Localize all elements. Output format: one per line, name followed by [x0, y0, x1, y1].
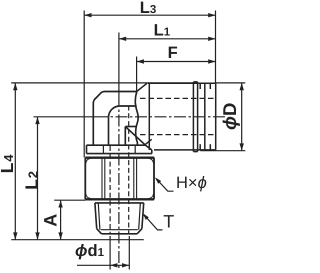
wire elbow outer contour with chamfered corner	[93, 92, 136, 146]
node phiD dimension line with arrows	[240, 83, 244, 151]
wire ring top cap	[193, 81, 197, 83]
node F dimension line with arrows	[137, 59, 216, 63]
node T leader with arrow	[143, 213, 163, 230]
wire hex face lines right pair	[134, 158, 137, 199]
wire cap bottom edge	[154, 149, 216, 151]
wire stud bottom left chamfer	[97, 229, 102, 234]
node A dimension line with arrows	[58, 200, 62, 240]
svg-text:F: F	[168, 44, 178, 62]
node L1 dimension line with arrows	[119, 37, 216, 41]
wire stud bottom edge	[102, 233, 138, 235]
wire elbow inner corner arc	[109, 106, 120, 117]
wire stud left taper edge	[95, 203, 97, 229]
node horizontal center line (tube axis, L2 reference)	[34, 116, 97, 118]
wire cap flange seam vertical	[148, 83, 150, 150]
node vertical center line (port axis, L1 reference)	[118, 33, 120, 96]
wire hex chamfer corner arcs	[86, 158, 154, 198]
wire bottom extension line (stud tip level for L4 L2 A)	[11, 239, 144, 241]
wire L4 top extension line (ring top level)	[11, 82, 193, 84]
wire neck vertical	[124, 127, 126, 146]
node L4 dimension line with arrows	[13, 83, 17, 240]
wire nut right edge	[153, 158, 155, 200]
wire inner vertical line	[108, 117, 110, 145]
svg-text:H×ϕ: H×ϕ	[176, 174, 207, 192]
wire collar left edge	[86, 145, 88, 153]
wire collar right chamfer	[146, 145, 152, 150]
wire stud bottom right chamfer	[137, 229, 142, 234]
wire ring second seam	[197, 82, 199, 152]
hex nut	[85, 158, 154, 200]
wire button chamfer stub bottom	[209, 144, 211, 150]
wire collar top edge	[87, 144, 146, 146]
wire phid1 right extension line	[128, 236, 130, 270]
threaded stud	[95, 203, 144, 234]
wire tube bore hidden line top	[140, 97, 215, 99]
wire cap bottom-left chamfer	[146, 139, 152, 144]
wire port bore hidden line right	[128, 106, 130, 234]
wire button groove seam	[204, 83, 206, 150]
wire collar right edge	[151, 150, 153, 154]
wire port bore hidden line left	[109, 146, 111, 234]
wire stud end chamfer inner line	[101, 229, 138, 231]
wire stud right taper edge	[142, 203, 144, 229]
wire nut top edge	[85, 157, 154, 159]
wire right extension line (end face reference for L3 L1 F)	[215, 11, 217, 84]
node L2 dimension line with arrows	[35, 117, 39, 240]
wire body ledge	[125, 126, 136, 128]
wire A top extension line (nut bottom level)	[54, 199, 85, 201]
wire thread minor line left	[98, 204, 100, 230]
wire F left extension line (body-cap joint reference)	[136, 57, 138, 92]
wire ring left seam	[192, 82, 194, 152]
wire nut bottom edge	[85, 198, 154, 200]
svg-text:ϕD: ϕD	[219, 103, 240, 130]
wire body-cap joint wavy seam	[135, 92, 138, 146]
wire phid1 left extension line	[109, 236, 111, 270]
wire phiD top extension line	[216, 82, 246, 84]
wire button chamfer stub top	[209, 83, 211, 89]
wire cap top-left chamfer	[137, 83, 147, 91]
wire phiD bottom extension line	[200, 150, 245, 152]
svg-text:A: A	[41, 214, 61, 227]
svg-text:L4: L4	[0, 154, 17, 174]
wire L3 left extension line (hex flat reference)	[83, 11, 85, 158]
wire collar bottom edge	[87, 153, 152, 155]
wire hex face lines left pair	[102, 158, 105, 199]
node L3 dimension line with arrows	[84, 13, 215, 17]
elbow body	[93, 92, 145, 146]
wire cone silhouette diagonal	[126, 127, 146, 145]
node H x phi leader with arrow	[155, 177, 174, 191]
wire stud shoulder line	[95, 202, 144, 204]
collar below elbow	[87, 145, 152, 153]
wire ring chamfer stub bottom	[199, 144, 201, 150]
wire thread minor line right	[139, 204, 141, 230]
cap cartridge	[137, 82, 216, 152]
wire collar face line right	[134, 145, 136, 153]
svg-text:T: T	[163, 212, 174, 232]
wire nut left edge	[84, 158, 86, 200]
wire ring bottom cap	[193, 151, 197, 153]
wire end face	[215, 83, 217, 150]
wire inner bore top line	[120, 105, 137, 107]
node phid1 dimension line with arrows	[77, 263, 129, 267]
wire collar face line left	[102, 145, 104, 153]
wire cap top edge	[148, 82, 216, 84]
wire ring chamfer stub top	[199, 83, 201, 89]
wire tube bore hidden line bottom	[140, 134, 215, 136]
